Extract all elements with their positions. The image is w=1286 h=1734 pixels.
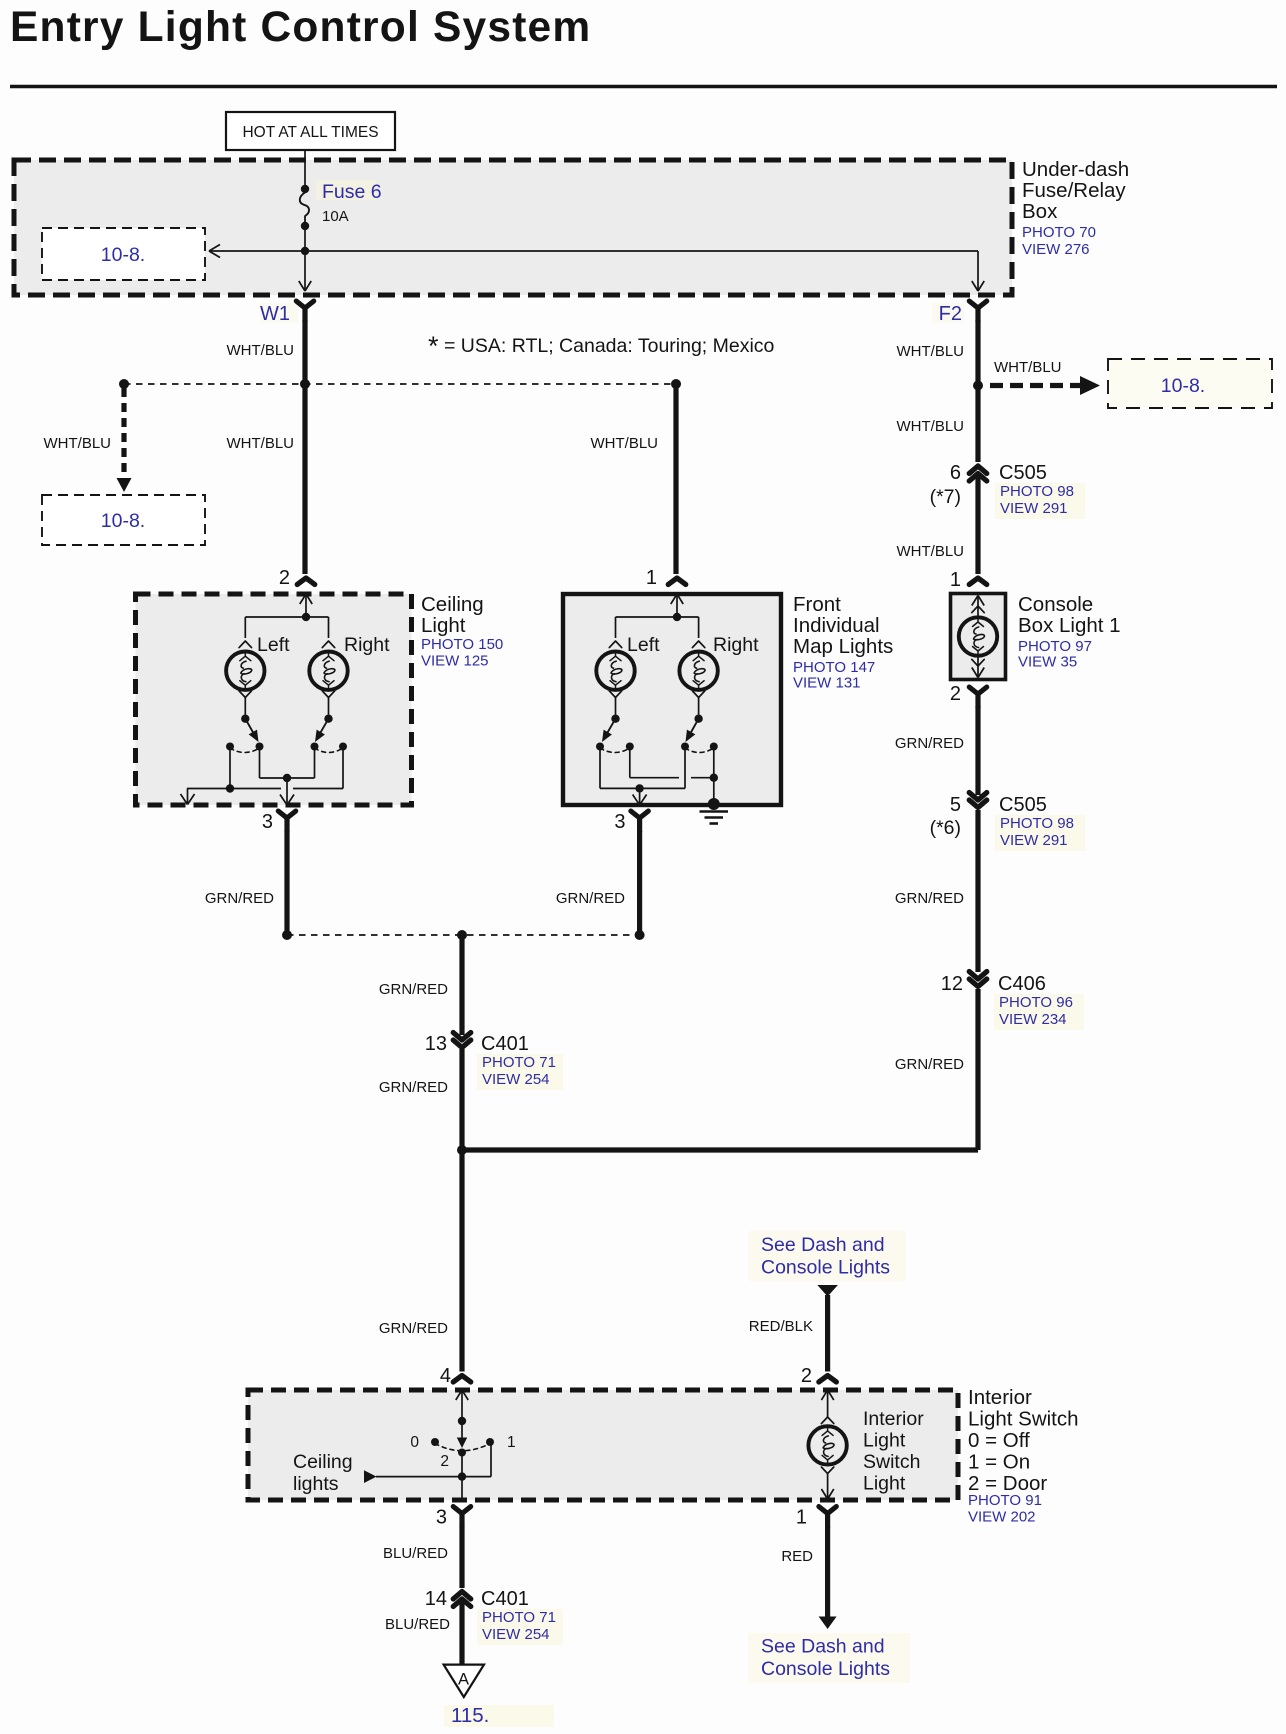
svg-text:GRN/RED: GRN/RED	[895, 735, 964, 752]
connector C505 pin 6	[930, 462, 1085, 519]
wire F2 down	[897, 320, 979, 462]
svg-text:Switch: Switch	[863, 1451, 920, 1473]
label under-dash fuse/relay box	[1022, 158, 1129, 258]
svg-text:Light Switch: Light Switch	[968, 1408, 1079, 1431]
wire ceiling 3 down	[205, 831, 287, 935]
svg-text:2: 2	[440, 1453, 449, 1470]
svg-text:3: 3	[262, 811, 273, 833]
map lights right bulb	[679, 634, 759, 715]
svg-text:Entry Light Control System: Entry Light Control System	[10, 4, 591, 51]
svg-text:lights: lights	[293, 1473, 339, 1495]
svg-text:1: 1	[950, 569, 961, 591]
node dashed tie line	[119, 379, 681, 389]
svg-text:(*6): (*6)	[930, 817, 961, 839]
interior switch pin 2	[801, 1365, 837, 1400]
svg-text:PHOTO 98: PHOTO 98	[1000, 815, 1074, 832]
wire C505 pin5 to C406	[895, 810, 978, 972]
svg-text:PHOTO 70: PHOTO 70	[1022, 224, 1096, 241]
svg-text:Right: Right	[713, 634, 759, 656]
svg-text:14: 14	[425, 1588, 447, 1610]
svg-text:VIEW 131: VIEW 131	[793, 675, 861, 692]
svg-text:WHT/BLU: WHT/BLU	[227, 342, 295, 359]
map lights inner wiring	[600, 748, 718, 803]
svg-text:3: 3	[614, 811, 625, 833]
svg-text:PHOTO 98: PHOTO 98	[1000, 483, 1074, 500]
svg-text:VIEW 254: VIEW 254	[482, 1626, 550, 1643]
svg-text:Under-dash: Under-dash	[1022, 158, 1129, 181]
svg-text:WHT/BLU: WHT/BLU	[897, 543, 965, 560]
svg-text:WHT/BLU: WHT/BLU	[591, 435, 659, 452]
label interior light switch light	[863, 1408, 924, 1495]
title	[10, 4, 591, 51]
svg-text:PHOTO 96: PHOTO 96	[999, 994, 1073, 1011]
label ceiling light	[421, 593, 503, 670]
svg-text:PHOTO 147: PHOTO 147	[793, 659, 875, 676]
svg-text:VIEW 291: VIEW 291	[1000, 500, 1068, 517]
map lights left switch	[596, 715, 634, 753]
svg-text:VIEW 125: VIEW 125	[421, 653, 489, 670]
reference 10-8 box (left)	[42, 495, 205, 545]
wire console to C505 pin5	[895, 706, 978, 795]
connector C401 pin 13	[425, 1033, 563, 1091]
wire map 3 down	[556, 831, 640, 935]
wire pin1 to dash lights	[781, 1527, 836, 1630]
svg-text:See Dash and: See Dash and	[761, 1234, 885, 1256]
ceiling light internal top node	[245, 613, 328, 638]
svg-text:1: 1	[507, 1434, 516, 1451]
map lights pin 3	[614, 795, 648, 834]
svg-text:RED: RED	[781, 1548, 813, 1565]
branch wire to 10-8 (dashed)	[44, 388, 132, 492]
svg-text:10-8.: 10-8.	[101, 510, 145, 532]
svg-text:VIEW 202: VIEW 202	[968, 1509, 1036, 1526]
svg-text:Right: Right	[344, 634, 390, 656]
interior switch rotary	[376, 1417, 516, 1499]
connector W1	[260, 301, 314, 325]
svg-text:*: *	[428, 331, 439, 361]
svg-text:HOT AT ALL TIMES: HOT AT ALL TIMES	[242, 124, 378, 141]
svg-text:Interior: Interior	[968, 1386, 1032, 1409]
wire C401 to interior switch	[379, 1049, 467, 1372]
svg-text:WHT/BLU: WHT/BLU	[897, 343, 965, 360]
under-dash fuse/relay box	[14, 160, 1012, 295]
svg-text:PHOTO 91: PHOTO 91	[968, 1492, 1042, 1509]
svg-text:Left: Left	[257, 634, 290, 656]
title rule	[10, 85, 1277, 88]
note asterisk legend	[428, 331, 775, 361]
wire C505 to console box light	[897, 477, 979, 574]
map lights ground G1	[700, 748, 729, 824]
label see dash and console lights (bottom)	[748, 1633, 910, 1683]
svg-text:WHT/BLU: WHT/BLU	[227, 435, 295, 452]
ceiling light left bulb	[226, 634, 290, 715]
label see dash and console lights (top)	[748, 1231, 906, 1281]
svg-text:GRN/RED: GRN/RED	[379, 1079, 448, 1096]
svg-text:= USA: RTL; Canada: Touring; M: = USA: RTL; Canada: Touring; Mexico	[444, 335, 775, 357]
svg-text:1: 1	[796, 1507, 807, 1529]
svg-text:Ceiling: Ceiling	[421, 593, 484, 616]
svg-text:VIEW 291: VIEW 291	[1000, 832, 1068, 849]
svg-text:VIEW 35: VIEW 35	[1018, 654, 1077, 671]
ceiling light pin 2	[279, 567, 315, 617]
svg-text:Box Light 1: Box Light 1	[1018, 614, 1121, 637]
svg-text:2: 2	[950, 683, 961, 705]
svg-text:Left: Left	[627, 634, 660, 656]
svg-text:PHOTO 71: PHOTO 71	[482, 1609, 556, 1626]
label 115	[444, 1704, 554, 1727]
fuse F6 10A	[300, 180, 382, 230]
svg-text:Box: Box	[1022, 200, 1058, 223]
connector C406 pin 12	[941, 972, 1084, 1031]
svg-text:VIEW 234: VIEW 234	[999, 1011, 1067, 1028]
svg-text:BLU/RED: BLU/RED	[385, 1616, 450, 1633]
svg-text:3: 3	[436, 1507, 447, 1529]
svg-text:BLU/RED: BLU/RED	[383, 1545, 448, 1562]
svg-text:2: 2	[801, 1365, 812, 1387]
svg-text:Light: Light	[863, 1473, 906, 1495]
HOT AT ALL TIMES box	[226, 112, 395, 150]
svg-text:A: A	[458, 1671, 469, 1689]
ceiling light inner wiring	[187, 748, 343, 803]
wire to C401 pin 13	[379, 935, 462, 1035]
map lights internal top node	[616, 613, 699, 638]
ceiling light exit arrow left	[181, 789, 195, 805]
svg-text:10A: 10A	[322, 208, 349, 225]
svg-text:GRN/RED: GRN/RED	[895, 890, 964, 907]
svg-text:Front: Front	[793, 593, 841, 616]
reference 10-8 box (right)	[1108, 359, 1272, 408]
svg-text:C505: C505	[999, 794, 1047, 816]
svg-text:2: 2	[279, 567, 290, 589]
svg-text:5: 5	[950, 794, 961, 816]
svg-text:C406: C406	[998, 973, 1046, 995]
svg-text:Interior: Interior	[863, 1408, 924, 1430]
wire C401 pin14 to ground symbol	[385, 1602, 462, 1664]
svg-text:C401: C401	[481, 1588, 529, 1610]
svg-text:Individual: Individual	[793, 614, 880, 637]
label console box light 1	[1018, 593, 1121, 671]
wire C406 down and over	[462, 989, 978, 1150]
svg-text:Console: Console	[1018, 593, 1093, 616]
svg-text:Fuse/Relay: Fuse/Relay	[1022, 179, 1126, 202]
ceiling light left door switch	[226, 715, 264, 753]
wire fuse bus	[209, 226, 984, 291]
svg-text:GRN/RED: GRN/RED	[556, 890, 625, 907]
ceiling light box	[136, 594, 412, 805]
interior switch pin 4	[440, 1365, 471, 1421]
svg-text:10-8.: 10-8.	[1161, 375, 1205, 397]
svg-text:VIEW 276: VIEW 276	[1022, 241, 1090, 258]
svg-text:GRN/RED: GRN/RED	[379, 981, 448, 998]
map lights left bulb	[596, 634, 660, 715]
interior switch pin 3	[436, 1507, 471, 1529]
label front individual map lights	[793, 593, 893, 692]
svg-text:C505: C505	[999, 462, 1047, 484]
svg-text:WHT/BLU: WHT/BLU	[994, 359, 1062, 376]
node F2 branch dot	[973, 381, 983, 391]
svg-text:Console Lights: Console Lights	[761, 1658, 890, 1680]
console box light 1 pin 1	[950, 569, 987, 591]
connector C401 pin 14	[425, 1588, 563, 1645]
svg-text:RED/BLK: RED/BLK	[749, 1318, 813, 1335]
svg-text:GRN/RED: GRN/RED	[895, 1056, 964, 1073]
console box light 1	[951, 594, 1006, 680]
map lights right switch	[681, 715, 718, 753]
wire to map lights	[591, 384, 677, 574]
interior light switch box	[248, 1390, 958, 1500]
ceiling light right bulb	[309, 634, 390, 715]
wire W1 to ceiling light	[227, 320, 306, 574]
ground reference triangle A	[444, 1665, 484, 1697]
svg-text:Console Lights: Console Lights	[761, 1257, 890, 1279]
connector C505 pin 5	[930, 793, 1085, 852]
interior light switch light bulb	[808, 1390, 846, 1499]
svg-text:10-8.: 10-8.	[101, 244, 145, 266]
label interior light switch legend	[968, 1386, 1079, 1526]
label ceiling lights	[293, 1451, 377, 1495]
svg-text:13: 13	[425, 1033, 447, 1055]
svg-text:0: 0	[410, 1434, 419, 1451]
interior switch pin 1	[796, 1507, 837, 1529]
svg-text:Light: Light	[421, 614, 466, 637]
svg-text:4: 4	[440, 1365, 451, 1387]
svg-text:F2: F2	[939, 303, 962, 325]
svg-text:PHOTO 71: PHOTO 71	[482, 1054, 556, 1071]
branch dashed arrow to 10-8 (right)	[990, 359, 1100, 395]
svg-text:1 = On: 1 = On	[968, 1451, 1030, 1474]
svg-text:1: 1	[646, 567, 657, 589]
svg-text:Fuse 6: Fuse 6	[322, 181, 382, 203]
svg-text:(*7): (*7)	[930, 486, 961, 508]
wire hot-at-all-times to fuse	[304, 150, 306, 189]
svg-text:See Dash and: See Dash and	[761, 1636, 885, 1658]
wire pin3 to C401 pin 14	[383, 1527, 462, 1589]
ceiling light right door switch	[311, 715, 348, 753]
svg-text:Ceiling: Ceiling	[293, 1451, 353, 1473]
node tie dashed line grn/red	[282, 930, 645, 940]
front individual map lights box	[563, 594, 781, 805]
svg-text:115.: 115.	[451, 1704, 489, 1727]
svg-text:PHOTO 97: PHOTO 97	[1018, 638, 1092, 655]
svg-text:W1: W1	[260, 303, 290, 325]
svg-text:Light: Light	[863, 1430, 906, 1452]
svg-text:12: 12	[941, 973, 963, 995]
map lights pin 1	[646, 567, 686, 617]
svg-text:GRN/RED: GRN/RED	[379, 1320, 448, 1337]
svg-text:6: 6	[950, 462, 961, 484]
wire red/blk from dash lights	[749, 1285, 838, 1372]
svg-text:Map Lights: Map Lights	[793, 635, 893, 658]
svg-text:PHOTO 150: PHOTO 150	[421, 636, 503, 653]
svg-text:0 = Off: 0 = Off	[968, 1429, 1030, 1452]
svg-text:WHT/BLU: WHT/BLU	[897, 418, 965, 435]
svg-text:WHT/BLU: WHT/BLU	[44, 435, 112, 452]
ceiling light pin 3	[262, 795, 296, 834]
reference 10-8 box (in fuse box)	[42, 228, 205, 280]
svg-text:C401: C401	[481, 1033, 529, 1055]
svg-text:GRN/RED: GRN/RED	[205, 890, 274, 907]
connector F2	[932, 301, 987, 325]
console box light 1 pin 2	[950, 683, 987, 708]
svg-text:VIEW 254: VIEW 254	[482, 1071, 550, 1088]
